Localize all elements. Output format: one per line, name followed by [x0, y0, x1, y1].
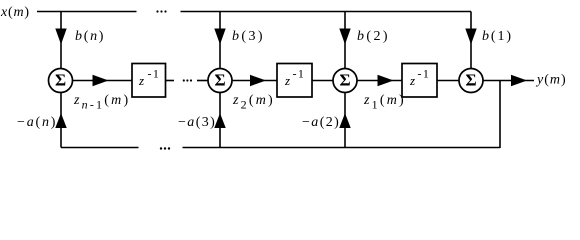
- svg-text:z: z: [284, 73, 290, 88]
- arrow down b(n): [56, 29, 66, 43]
- arrow right U2-Z2: [251, 76, 265, 86]
- svg-text:-1: -1: [148, 67, 161, 81]
- delay block Z2: [277, 64, 312, 98]
- svg-text:z1(m): z1(m): [363, 93, 406, 112]
- wire Z1 output stub: [166, 80, 175, 82]
- svg-text:y(m): y(m): [535, 73, 567, 88]
- svg-text:Σ: Σ: [214, 71, 225, 90]
- svg-text:−a(2): −a(2): [302, 115, 340, 130]
- svg-text:zn-1(m): zn-1(m): [73, 93, 130, 112]
- arrow right U1-Z1: [93, 76, 107, 86]
- svg-text:−a(n): −a(n): [17, 115, 57, 130]
- delay block Z3: [402, 64, 437, 98]
- svg-text:z: z: [409, 73, 415, 88]
- wire feedback -a(3) vertical: [219, 93, 221, 148]
- wire U4 to output: [483, 80, 534, 82]
- arrow up -a(3): [215, 115, 225, 128]
- arrow down b(3): [215, 29, 225, 43]
- svg-text:−a(3): −a(3): [178, 115, 216, 130]
- wire branch b(n) vertical: [60, 12, 62, 69]
- arrow down b(1): [466, 29, 476, 43]
- svg-text:b(n): b(n): [75, 29, 105, 44]
- arrow right output: [512, 76, 526, 86]
- wire Z3 to U4: [437, 80, 459, 82]
- wire top rail segment 1: [37, 11, 137, 13]
- wire branch b(1) vertical: [470, 12, 472, 69]
- svg-text:Σ: Σ: [465, 71, 476, 90]
- wire stub into U2: [197, 80, 208, 82]
- wire U1 to Z1: [73, 80, 133, 82]
- node top rail ellipsis: [156, 10, 166, 12]
- arrow up -a(2): [340, 115, 350, 128]
- wire Z2 to U3: [312, 80, 333, 82]
- svg-text:-1: -1: [418, 67, 431, 81]
- svg-text:b(3): b(3): [232, 29, 265, 44]
- arrow up -a(n): [56, 115, 66, 128]
- svg-text:z2(m): z2(m): [232, 93, 275, 112]
- svg-text:z: z: [138, 73, 144, 88]
- wire bottom rail segment 2: [183, 147, 501, 149]
- svg-text:Σ: Σ: [55, 71, 66, 90]
- node mid-row ellipsis: [183, 79, 192, 81]
- node bottom rail ellipsis: [160, 147, 170, 149]
- svg-text:b(1): b(1): [482, 29, 513, 44]
- summer U2: [208, 69, 232, 93]
- svg-text:-1: -1: [293, 67, 306, 81]
- wire branch b(3) vertical: [219, 12, 221, 69]
- wire branch b(2) vertical: [344, 12, 346, 69]
- wire U3 to Z3: [357, 80, 402, 82]
- summer U4: [459, 69, 483, 93]
- svg-text:b(2): b(2): [357, 29, 390, 44]
- wire output feedback vertical: [499, 81, 501, 149]
- wire feedback -a(2) vertical: [344, 93, 346, 148]
- summer U1: [49, 69, 73, 93]
- arrow right U3-Z3: [378, 76, 392, 86]
- arrow down b(2): [340, 29, 350, 43]
- svg-text:x(m): x(m): [0, 5, 30, 20]
- summer U3: [333, 69, 357, 93]
- wire bottom rail segment 1: [61, 147, 139, 149]
- wire U2 to Z2: [232, 80, 277, 82]
- svg-text:Σ: Σ: [339, 71, 350, 90]
- wire top rail segment 2: [181, 11, 472, 13]
- wire feedback -a(n) vertical: [60, 93, 62, 148]
- delay block Z1: [132, 64, 166, 98]
